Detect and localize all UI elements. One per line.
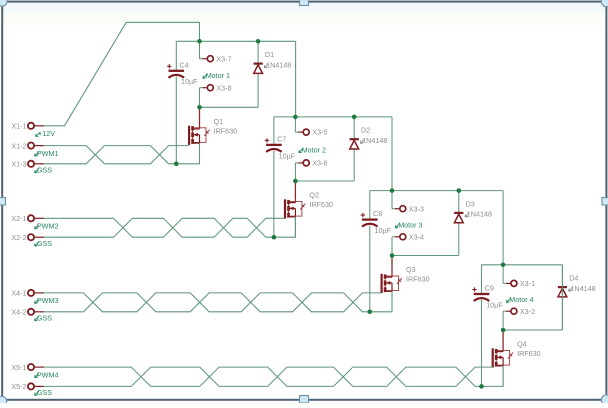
selection handle top-right xyxy=(601,0,608,7)
svg-text:IRF630: IRF630 xyxy=(214,126,238,135)
net label GSS of X5 xyxy=(35,388,53,397)
wire GSS net to Q1 source (twisted pair bottom) xyxy=(44,143,200,164)
selection handle bottom-center xyxy=(300,396,309,404)
svg-text:X3-7: X3-7 xyxy=(216,54,231,63)
selection handle middle-right xyxy=(602,198,608,206)
capacitor C9 xyxy=(472,287,489,301)
label X3-1 xyxy=(520,279,535,288)
value IRF630 of Q4 xyxy=(517,349,541,358)
label X2-2 xyxy=(11,233,26,242)
selection handle top-center xyxy=(300,0,309,6)
svg-text:10µF: 10µF xyxy=(181,77,198,86)
svg-text:Q3: Q3 xyxy=(406,265,416,274)
junction C8 to GSS xyxy=(368,310,373,315)
svg-text:IRF630: IRF630 xyxy=(406,275,430,284)
connector pin X2-1 xyxy=(28,215,44,221)
junction supply/block 1 xyxy=(197,39,202,44)
wire +12V link block 1 to block 2 xyxy=(295,41,297,117)
value 10µF of C4 xyxy=(181,77,198,86)
connector pin X5-2 xyxy=(28,383,44,389)
svg-text:IRF630: IRF630 xyxy=(309,200,333,209)
label X3-3 xyxy=(409,204,424,213)
svg-text:Motor 1: Motor 1 xyxy=(206,71,230,80)
junction drain node 2 xyxy=(293,179,298,184)
wire drain node rail block 3 xyxy=(392,255,459,257)
label C7 xyxy=(277,134,286,143)
net label GSS of X2 xyxy=(35,239,53,248)
svg-text:X5-2: X5-2 xyxy=(11,382,26,391)
connector pin X2-2 xyxy=(28,234,44,240)
label X1-1 xyxy=(11,121,26,130)
wire PWM2 net (twisted pair top) xyxy=(44,218,285,237)
label Q4 xyxy=(517,340,527,349)
net label Motor 3 xyxy=(395,221,422,230)
selection handle bottom-right xyxy=(601,395,608,405)
connector pin X3-7 xyxy=(200,56,214,62)
label X5-2 xyxy=(11,382,26,391)
label X3-7 xyxy=(216,54,231,63)
value IRF630 of Q2 xyxy=(309,200,333,209)
junction drain node 3 xyxy=(390,253,395,258)
value 1N4148 of D3 xyxy=(465,210,492,219)
wire from C9 down to GSS net xyxy=(481,300,483,387)
connector pin X3-5 xyxy=(295,129,309,135)
junction drain node 4 xyxy=(501,328,506,333)
svg-text:1N4148: 1N4148 xyxy=(362,136,387,145)
value 1N4148 of D1 xyxy=(264,60,291,69)
svg-text:GSS: GSS xyxy=(37,239,52,248)
value 1N4148 of D4 xyxy=(569,284,596,293)
wire diode D1 vertical xyxy=(257,41,259,107)
value IRF630 of Q1 xyxy=(214,126,238,135)
capacitor C4 xyxy=(167,64,184,78)
label D2 xyxy=(361,126,370,135)
value 10µF of C7 xyxy=(279,151,296,160)
selection handle middle-left xyxy=(0,198,6,206)
transistor Q2 xyxy=(285,181,305,237)
junction supply/block 3 xyxy=(390,188,395,193)
wire supply drop to pin X3-3 xyxy=(391,191,393,209)
svg-text:PWM3: PWM3 xyxy=(37,296,59,305)
svg-text:Motor 3: Motor 3 xyxy=(398,221,422,230)
svg-text:X4-2: X4-2 xyxy=(11,308,26,317)
selection handle top-left xyxy=(0,0,7,6)
junction supply/block 2 xyxy=(293,115,298,120)
wire drain node rail block 2 xyxy=(295,180,354,182)
svg-text:D3: D3 xyxy=(466,199,475,208)
value 10µF of C9 xyxy=(486,300,503,309)
wire +12V link block 2 to block 3 xyxy=(391,117,393,191)
label X3-4 xyxy=(409,232,424,241)
svg-text:X1-2: X1-2 xyxy=(11,141,26,150)
wire from C4 down to GSS net xyxy=(175,77,177,164)
label X3-6 xyxy=(312,159,327,168)
svg-text:D4: D4 xyxy=(569,274,578,283)
diode D3 xyxy=(454,213,463,223)
svg-text:C7: C7 xyxy=(277,134,286,143)
wire PWM1 net (twisted pair top) xyxy=(44,146,190,164)
wire from pin X3-4 to drain node xyxy=(391,237,393,256)
label X3-2 xyxy=(520,307,535,316)
wire from pin X3-8 to drain node xyxy=(199,88,201,108)
wire left edge above C7 xyxy=(273,117,275,144)
connector pin X5-1 xyxy=(28,364,44,370)
svg-text:Motor 4: Motor 4 xyxy=(509,295,533,304)
svg-text:X3-6: X3-6 xyxy=(312,159,327,168)
connector pin X3-3 xyxy=(392,206,406,212)
wire from pin X3-2 to drain node xyxy=(502,311,504,330)
label Q3 xyxy=(406,265,416,274)
svg-text:PWM1: PWM1 xyxy=(37,149,59,158)
svg-text:X3-1: X3-1 xyxy=(520,279,535,288)
svg-text:GSS: GSS xyxy=(37,388,52,397)
label X5-1 xyxy=(11,363,26,372)
net label PWM1 xyxy=(35,149,59,158)
wire PWM3 net (twisted pair top) xyxy=(44,293,382,312)
svg-text:1N4148: 1N4148 xyxy=(570,284,595,293)
transistor Q3 xyxy=(382,256,402,312)
wire +12V top rail block 3 xyxy=(370,190,503,192)
label X3-5 xyxy=(312,128,327,137)
label X3-8 xyxy=(216,83,231,92)
transistor Q4 xyxy=(493,330,513,386)
svg-text:GSS: GSS xyxy=(37,313,52,322)
wire +12V from X1-1 to top rail xyxy=(44,22,200,126)
svg-text:X3-4: X3-4 xyxy=(409,232,424,241)
connector pin X4-2 xyxy=(28,309,44,315)
svg-text:D1: D1 xyxy=(265,50,274,59)
svg-text:GSS: GSS xyxy=(37,165,52,174)
wire +12V top rail block 2 xyxy=(274,116,392,118)
connector pin X3-6 xyxy=(295,160,309,166)
svg-text:PWM4: PWM4 xyxy=(37,370,59,379)
junction diode D2 top xyxy=(352,115,357,120)
svg-text:1N4148: 1N4148 xyxy=(266,60,291,69)
svg-text:X2-1: X2-1 xyxy=(11,214,26,223)
capacitor C7 xyxy=(265,138,282,152)
svg-text:X1-3: X1-3 xyxy=(11,160,26,169)
svg-text:+12V: +12V xyxy=(38,129,55,138)
svg-text:C8: C8 xyxy=(373,209,382,218)
value 10µF of C8 xyxy=(375,226,392,235)
junction C7 to GSS xyxy=(272,235,277,240)
net label PWM2 xyxy=(35,222,59,231)
label D4 xyxy=(569,274,578,283)
svg-text:X2-2: X2-2 xyxy=(11,233,26,242)
svg-text:X5-1: X5-1 xyxy=(11,363,26,372)
wire left edge above C9 xyxy=(481,265,483,293)
svg-text:Motor 2: Motor 2 xyxy=(302,145,326,154)
label X1-2 xyxy=(11,141,26,150)
svg-text:X4-1: X4-1 xyxy=(11,289,26,298)
svg-text:Q1: Q1 xyxy=(214,117,224,126)
svg-text:X1-1: X1-1 xyxy=(11,121,26,130)
connector pin X3-1 xyxy=(503,280,517,286)
diode D4 xyxy=(558,287,567,297)
label C8 xyxy=(373,209,382,218)
capacitor C8 xyxy=(361,213,378,227)
net label PWM3 xyxy=(35,296,59,305)
junction diode D1 top xyxy=(256,39,261,44)
connector pin X1-3 xyxy=(28,161,44,167)
wire right edge block 4 xyxy=(561,265,563,330)
transistor Q1 xyxy=(189,107,209,164)
net label +12V xyxy=(36,129,56,138)
svg-text:10µF: 10µF xyxy=(375,226,392,235)
wire supply drop to pin X3-7 xyxy=(199,41,201,58)
wire drain node rail block 4 xyxy=(503,329,562,331)
junction C9 to GSS xyxy=(479,384,484,389)
label X2-1 xyxy=(11,214,26,223)
svg-text:Q4: Q4 xyxy=(517,340,527,349)
svg-text:X3-5: X3-5 xyxy=(312,128,327,137)
net label GSS of X4 xyxy=(35,313,53,322)
wire supply drop to pin X3-5 xyxy=(294,117,296,132)
net label Motor 2 xyxy=(299,145,326,154)
svg-text:10µF: 10µF xyxy=(279,151,296,160)
svg-text:C4: C4 xyxy=(180,60,189,69)
label C9 xyxy=(485,284,494,293)
svg-text:X3-8: X3-8 xyxy=(216,83,231,92)
label X4-2 xyxy=(11,308,26,317)
svg-text:10µF: 10µF xyxy=(486,300,503,309)
svg-text:X3-2: X3-2 xyxy=(520,307,535,316)
diode D1 xyxy=(254,64,263,74)
svg-text:Q2: Q2 xyxy=(309,191,319,200)
wire from pin X3-6 to drain node xyxy=(294,163,296,181)
wire +12V top rail block 4 xyxy=(482,264,563,266)
wire +12V top rail block 1 xyxy=(176,40,295,42)
wire PWM4 net (twisted pair top) xyxy=(44,367,493,386)
wire diode D3 vertical xyxy=(458,191,460,256)
diode D2 xyxy=(350,139,359,149)
wire diode D4 vertical xyxy=(561,265,563,330)
junction C4 to GSS xyxy=(174,162,179,167)
label C4 xyxy=(180,60,189,69)
junction diode D3 top xyxy=(457,188,462,193)
wire from C8 down to GSS net xyxy=(369,225,371,311)
svg-text:D2: D2 xyxy=(361,126,370,135)
label D3 xyxy=(466,199,475,208)
wire left edge above C8 xyxy=(369,191,371,219)
selection handle bottom-left xyxy=(0,396,7,406)
wire from C7 down to GSS net xyxy=(273,151,275,238)
wire drain node rail block 1 xyxy=(200,106,259,108)
label X4-1 xyxy=(11,289,26,298)
connector pin X4-1 xyxy=(28,290,44,296)
wire diode D2 vertical xyxy=(353,117,355,181)
net label Motor 1 xyxy=(203,71,230,80)
junction drain node 1 xyxy=(197,105,202,110)
wire GSS net to Q2 source (twisted pair bottom) xyxy=(44,217,296,237)
svg-text:C9: C9 xyxy=(485,284,494,293)
wire GSS net to Q4 source (twisted pair bottom) xyxy=(44,366,504,387)
label Q2 xyxy=(309,191,319,200)
net label Motor 4 xyxy=(507,295,534,304)
connector pin X3-4 xyxy=(392,234,406,240)
wire GSS net to Q3 source (twisted pair bottom) xyxy=(44,291,392,312)
svg-text:IRF630: IRF630 xyxy=(517,349,541,358)
wire +12V link block 3 to block 4 xyxy=(502,191,504,265)
net label GSS of X1 xyxy=(35,165,53,174)
value IRF630 of Q3 xyxy=(406,275,430,284)
label X1-3 xyxy=(11,160,26,169)
connector pin X1-2 xyxy=(28,143,44,149)
connector pin X3-8 xyxy=(200,85,214,91)
net label PWM4 xyxy=(35,370,59,379)
label D1 xyxy=(265,50,274,59)
svg-text:X3-3: X3-3 xyxy=(409,204,424,213)
svg-text:PWM2: PWM2 xyxy=(37,222,59,231)
connector pin X3-2 xyxy=(503,308,517,314)
connector pin X1-1 xyxy=(28,123,44,129)
svg-text:1N4148: 1N4148 xyxy=(467,210,492,219)
wire supply drop to pin X3-1 xyxy=(502,265,504,284)
label Q1 xyxy=(214,117,224,126)
wire left edge above C4 xyxy=(175,41,177,70)
value 1N4148 of D2 xyxy=(360,136,387,145)
junction supply/block 4 xyxy=(501,263,506,268)
